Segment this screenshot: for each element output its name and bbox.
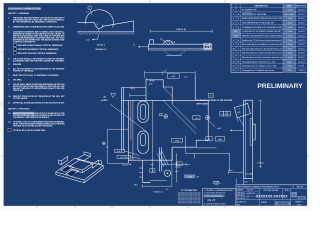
- detail view boundary arc: [86, 10, 114, 27]
- svg-text:1. Draft: 1. Draft: [286, 52, 293, 55]
- svg-text:2. XXX XXXX XXXXX XX: 2. XXX XXXX XXXXX XX: [204, 193, 226, 195]
- svg-text:10-9-21: 10-9-21: [298, 18, 305, 20]
- svg-text:⌀.18: ⌀.18: [244, 180, 248, 183]
- svg-text:SHEET 1: SHEET 1: [295, 202, 303, 204]
- svg-text:10-7-21: 10-7-21: [249, 192, 255, 194]
- svg-text:12.: 12.: [8, 113, 11, 115]
- svg-text:⌀.31 B: ⌀.31 B: [117, 150, 123, 153]
- svg-text:IN: DRAWN PER: IN: DRAWN PER: [242, 9, 257, 12]
- side view outline: [244, 100, 253, 178]
- vertical extension to title area: [175, 153, 181, 182]
- aux view left leader target: [138, 46, 140, 48]
- svg-text:4. XXX XX XXXXX XXXX: 4. XXX XX XXXXX XXXX: [204, 203, 226, 205]
- svg-text:⌀.1: ⌀.1: [86, 11, 89, 14]
- aux view center cam bump: [164, 40, 173, 44]
- long extension line to side view: [185, 136, 229, 171]
- boxed label stack left of slots: [115, 149, 125, 152]
- svg-text:Detail 1: Detail 1: [97, 44, 106, 47]
- svg-text:THE XXXXXX XXX XXXXX XX XXXX X: THE XXXXXX XXX XXXXX XX XXXX XXX: [178, 196, 201, 198]
- right side small callouts: [193, 115, 200, 119]
- svg-text:9: 9: [233, 44, 234, 46]
- svg-text:13: 13: [232, 61, 234, 63]
- svg-text:10-7-21: 10-7-21: [298, 10, 305, 12]
- svg-text:DEBURR.: DEBURR.: [13, 64, 22, 66]
- bottom dimension line: [143, 184, 172, 188]
- zone tick marks right: [307, 52, 309, 156]
- svg-text:ALIGNMENT AND THE FIXTURE GAUG: ALIGNMENT AND THE FIXTURE GAUGE PIN. FIN…: [13, 60, 65, 63]
- aux view top dimension line: [151, 30, 213, 33]
- side view bottom dimensions: [228, 170, 252, 185]
- side view right bump: [253, 124, 256, 140]
- svg-text:≈⊕: ≈⊕: [196, 176, 199, 179]
- leader to position callout: [208, 120, 215, 127]
- revision table: [231, 3, 307, 72]
- svg-text:L: L: [238, 57, 239, 59]
- svg-text:THE XXXXXX XXX XXXXX XX XXXX X: THE XXXXXX XXX XXXXX XX XXXX XXX: [178, 201, 201, 203]
- svg-text:10-9-21: 10-9-21: [298, 35, 305, 37]
- svg-text:THE XXXXXX XXX XXXXX XX XXXX X: THE XXXXXX XXX XXXXX XX XXXX XXX: [178, 203, 201, 205]
- svg-text:BEST FILE FOR CALL TO MATERIAL: BEST FILE FOR CALL TO MATERIAL THICKNESS…: [13, 74, 59, 77]
- svg-text:DESCRIPTION: DESCRIPTION: [255, 5, 269, 7]
- notes block: general notes text: [8, 8, 65, 132]
- svg-text:.3: .3: [178, 164, 180, 166]
- boxed diameter callout: [216, 137, 225, 141]
- proprietary note paragraph: [178, 189, 201, 204]
- svg-text:DIMENSIONS AND TOLERANCING PER: DIMENSIONS AND TOLERANCING PER ASME Y14.…: [13, 25, 65, 28]
- body left edge inner lines: [131, 100, 133, 160]
- svg-text:POINTS OF THE EDGE.: POINTS OF THE EDGE.: [13, 71, 34, 73]
- svg-text:8: 8: [210, 96, 211, 98]
- highlighted label 1.500: [122, 163, 128, 166]
- datum target circle left: [103, 142, 106, 145]
- slot lower outer: [138, 131, 149, 154]
- svg-text:GROUP 2: PROCESS: GROUP 2: PROCESS: [8, 109, 30, 111]
- svg-text:NO BUMPS ON EDGE OF THE FIXTUR: NO BUMPS ON EDGE OF THE FIXTURE: [197, 100, 233, 102]
- svg-text:Still note tolerance of the ba: Still note tolerance of the bar with ful…: [242, 52, 282, 55]
- side view left leader: [230, 130, 232, 132]
- svg-text:2. Draft: 2. Draft: [286, 26, 293, 29]
- aux view right end detail: [205, 44, 210, 48]
- svg-text:⌀.30: ⌀.30: [171, 75, 175, 78]
- svg-text:⌀.1: ⌀.1: [106, 145, 109, 148]
- svg-text:HIT SPEC.: HIT SPEC.: [13, 79, 23, 81]
- svg-text:INDICATES FUNCTIONALLY CRITICA: INDICATES FUNCTIONALLY CRITICAL DIMENSIO…: [18, 44, 63, 47]
- side view tilted flag: [234, 103, 250, 117]
- projection stubs on x=142.6: [139, 168, 143, 177]
- highlighted callout 1.900: [184, 174, 195, 178]
- svg-text:8:54: 8:54: [215, 184, 219, 186]
- zone tick marks left: [1, 52, 3, 156]
- svg-text:10-9-21: 10-9-21: [298, 53, 305, 55]
- svg-text:THE INFORMATION CONTAINED IN T: THE INFORMATION CONTAINED IN THIS DRAWIN…: [237, 186, 280, 189]
- main view small target circle: [164, 114, 168, 118]
- slot lower inner: [141, 134, 146, 146]
- svg-text:5: 5: [233, 27, 234, 29]
- svg-text:9-7-21: 9-7-21: [299, 66, 304, 68]
- short lines near bottom: [143, 181, 167, 183]
- svg-text:SCALE 8:1: SCALE 8:1: [95, 48, 107, 51]
- boxed label .15: [150, 169, 155, 173]
- svg-text:Changed tab D f distance to c: Changed tab D f distance to c slot: [242, 60, 276, 63]
- svg-text:1. Draft: 1. Draft: [286, 34, 293, 37]
- svg-text:Was made tolerances added etc: Was made tolerances added etc on dimensi…: [242, 43, 283, 46]
- svg-text:THE XXXXXX XXX XXXXX XX XXXX X: THE XXXXXX XXX XXXXX XX XXXX XXX: [178, 197, 201, 199]
- svg-text:7: 7: [89, 8, 90, 10]
- svg-text:THE XXXXXX XXX XXXXX XX XXXX X: THE XXXXXX XXX XXXXX XX XXXX XXX: [178, 192, 201, 194]
- svg-text:IF CONTRACTED: IF CONTRACTED: [181, 189, 197, 192]
- svg-text:10-7-21: 10-7-21: [298, 14, 305, 16]
- svg-text:4.42 [x]: 4.42 [x]: [257, 162, 264, 164]
- svg-text:⌀5: ⌀5: [208, 138, 210, 141]
- logo cell: [291, 192, 297, 197]
- svg-text:2. Draft: 2. Draft: [286, 17, 293, 20]
- svg-text:1. Draft: 1. Draft: [286, 9, 293, 12]
- svg-text:⌀.15: ⌀.15: [184, 75, 188, 78]
- svg-text:DETAIL: DETAIL: [213, 181, 221, 184]
- svg-text:1.900: 1.900: [187, 177, 192, 179]
- svg-text:2: 2: [233, 14, 234, 16]
- svg-text:APPROVED: APPROVED: [296, 4, 307, 7]
- svg-text:SCALE 2:1: SCALE 2:1: [154, 191, 163, 194]
- main view internal vertical line: [151, 100, 153, 172]
- svg-text:J: J: [238, 48, 239, 50]
- main view upper boxed label: [167, 74, 179, 79]
- svg-text:OF 1: OF 1: [297, 204, 301, 206]
- svg-text:3.05: 3.05: [149, 84, 153, 86]
- svg-text:SCALE 1:1: SCALE 1:1: [237, 201, 246, 204]
- left standards box of title block: [203, 188, 237, 206]
- svg-text:SHEET: SHEET: [261, 202, 268, 204]
- svg-text:7-16-21: 7-16-21: [298, 70, 305, 72]
- svg-text:WITH GATE: WITH GATE: [197, 103, 209, 106]
- svg-text:.62: .62: [164, 70, 167, 72]
- svg-text:APPROVAL A DETAILED ARTICLE PL: APPROVAL A DETAILED ARTICLE PLAN SHOULD …: [13, 102, 65, 105]
- svg-text:[.38]: [.38]: [175, 140, 179, 142]
- svg-text:⊕ [.3]: ⊕ [.3]: [130, 87, 135, 90]
- svg-text:8: 8: [233, 40, 234, 42]
- svg-text:Ra 25: Ra 25: [208, 198, 216, 202]
- svg-text:THE XXXXXX XXX XXXXX XX XXXX X: THE XXXXXX XXX XXXXX XX XXXX XXX: [178, 199, 201, 201]
- svg-text:⊕(x): ⊕(x): [229, 169, 233, 172]
- svg-text:Changed the Ti f fixtures to c: Changed the Ti f fixtures to c slot: [242, 65, 277, 68]
- svg-text:1. Days: 1. Days: [286, 66, 292, 68]
- svg-text:CHECKED: CHECKED: [237, 192, 246, 194]
- main view outline wide body: [121, 100, 208, 160]
- svg-text:10-9-21: 10-9-21: [298, 61, 305, 63]
- horizontal dimension line y=164.4: [162, 163, 190, 166]
- svg-text:10-9-21: 10-9-21: [298, 31, 305, 33]
- svg-text:⌀8: ⌀8: [104, 95, 106, 98]
- svg-text:Moved frames in latest slot fi: Moved frames in latest slot fixture with…: [242, 56, 282, 59]
- svg-text:⌀.4 7.2⌀: ⌀.4 7.2⌀: [120, 156, 128, 159]
- side view tall dimension line far right: [259, 100, 263, 168]
- svg-text:2.82 [71.6]: 2.82 [71.6]: [176, 29, 186, 31]
- svg-text:15: 15: [232, 70, 234, 72]
- slot upper outer: [138, 101, 149, 123]
- main view upper dimension line: [145, 71, 196, 78]
- svg-text:CONTROLS GEOMETRY:: CONTROLS GEOMETRY:: [13, 41, 36, 43]
- svg-text:10-9-21: 10-9-21: [298, 22, 305, 24]
- title block main table: [236, 185, 307, 206]
- aux view phantom bowl arc below bar: [164, 50, 185, 55]
- svg-text:Changed the Ti added clip fixt: Changed the Ti added clip fixture: [242, 69, 274, 72]
- isometric small dark slot: [62, 167, 71, 172]
- zone tick marks top: [75, 1, 225, 3]
- svg-text:1. Plus: 1. Plus: [286, 70, 292, 72]
- boxed label near right step: [172, 139, 183, 143]
- svg-text:1. Draft: 1. Draft: [286, 56, 293, 59]
- svg-text:OF THE GAUGE.: OF THE GAUGE.: [13, 97, 28, 100]
- svg-text:2.03 A18: 2.03 A18: [246, 172, 253, 175]
- svg-text:FIXTURE DETAIL: FIXTURE DETAIL: [263, 189, 278, 192]
- svg-text:13.: 13.: [8, 121, 11, 123]
- svg-text:.15: .15: [151, 171, 154, 173]
- left projection box: [107, 129, 128, 163]
- svg-text:INDICATES ASSEMBLY CRITICAL DI: INDICATES ASSEMBLY CRITICAL DIMENSION.: [18, 48, 59, 51]
- title table grid: [236, 185, 307, 206]
- svg-text:10-9-21: 10-9-21: [298, 40, 305, 42]
- svg-text:INDICATES PROCESS CONTROL DIME: INDICATES PROCESS CONTROL DIMENSION.: [18, 52, 57, 55]
- zone tick marks bottom: [37, 207, 262, 209]
- svg-text:DATE: DATE: [286, 4, 292, 7]
- svg-text:TOLERANCE OF D DIMS .50 TO THE: TOLERANCE OF D DIMS .50 TO THE DETAIL OF…: [242, 26, 283, 29]
- bent-tab diagonals: [157, 150, 169, 167]
- lower vertical dimension with arrows: [171, 147, 173, 186]
- svg-text:ADDED DATUM TARGET D AND PROFI: ADDED DATUM TARGET D AND PROFILE TOL ALL…: [242, 17, 282, 20]
- isometric view of bracket: [56, 152, 103, 183]
- svg-text:⊕.08: ⊕.08: [217, 127, 221, 130]
- svg-text:LOCATIONS TOL OF SPRING CLIP A: LOCATIONS TOL OF SPRING CLIP AND THE SET: [242, 30, 282, 33]
- svg-text:THE XXXXXX XXX XXXXX XX XXXX X: THE XXXXXX XXX XXXXX XX XXXX XXX: [178, 194, 201, 196]
- svg-text:Initial: Initial: [287, 60, 292, 63]
- lower circle feature: [164, 170, 170, 176]
- main view bend diagonals: [163, 87, 196, 134]
- small dim text above upper part: [150, 80, 151, 81]
- main view lower extension lines: [128, 147, 161, 182]
- svg-text:4: 4: [233, 22, 234, 24]
- svg-text:1. Draft: 1. Draft: [286, 43, 293, 46]
- left flange thin element: [121, 88, 146, 151]
- svg-text:1. Draft: 1. Draft: [286, 47, 293, 50]
- datum reference frame stack: [220, 111, 231, 116]
- svg-text:⌀(8): ⌀(8): [218, 138, 222, 141]
- svg-text:10-9-21: 10-9-21: [298, 48, 305, 50]
- aux view flat bar body: [149, 44, 212, 50]
- svg-text:786 750: 786 750: [296, 187, 303, 189]
- detail balloon callout: [88, 6, 92, 10]
- svg-text:14: 14: [232, 66, 234, 68]
- svg-text:REMOVE B: TITLE GEOMETRY LT S: REMOVE B: TITLE GEOMETRY LT SLOT LOCATIO…: [242, 34, 283, 37]
- svg-text:⌀.04: ⌀.04: [86, 38, 90, 41]
- svg-text:.08: .08: [195, 118, 198, 120]
- svg-text:⌀.0XXX: ⌀.0XXX: [101, 99, 108, 102]
- svg-text:10.: 10.: [8, 96, 11, 98]
- svg-text:PER PLAN.: PER PLAN.: [13, 89, 24, 92]
- detail surface hatch band: [78, 30, 135, 32]
- svg-text:1988-0829: 1988-0829: [277, 204, 289, 206]
- svg-text:SIZE: SIZE: [285, 190, 290, 192]
- svg-text:1. Draft: 1. Draft: [286, 30, 293, 33]
- svg-text:1. Draft: 1. Draft: [286, 21, 293, 24]
- svg-text:11: 11: [233, 53, 235, 55]
- svg-text:1. Draft: 1. Draft: [286, 39, 293, 42]
- svg-text:FIXTURE. ALSO NOTED ACCEPT PRO: FIXTURE. ALSO NOTED ACCEPT PROCESS.: [13, 124, 53, 127]
- detail section profile: [78, 21, 134, 31]
- svg-text:Rev: Initial: Rev: Initial: [285, 13, 294, 16]
- main view outline upper portion: [146, 76, 195, 105]
- svg-text:XXXX: XXXX: [299, 198, 305, 200]
- svg-text:Half with added datum to the b: Half with added datum to the big dimensi…: [242, 47, 282, 50]
- svg-text:XXXXXXX-XXYXXX: XXXXXXX-XXYXXX: [256, 195, 288, 199]
- svg-text:10-9-21: 10-9-21: [298, 57, 305, 59]
- svg-text:TOLERANCE. SEE MASTER SCHEDULE: TOLERANCE. SEE MASTER SCHEDULE.: [13, 116, 50, 119]
- aux view left tab: [150, 40, 154, 44]
- svg-text:HOLE DEFINITION OF THE DETAIL: HOLE DEFINITION OF THE DETAIL SET: [242, 21, 275, 24]
- slot upper inner: [141, 104, 146, 119]
- svg-text:AT THE INTERFACE AT ASSEMBLY C: AT THE INTERFACE AT ASSEMBLY CONDITION.: [13, 21, 57, 24]
- svg-text:GROUP 1: GENERAL: GROUP 1: GENERAL: [8, 12, 30, 15]
- svg-text:10-9-21: 10-9-21: [298, 44, 305, 46]
- svg-text:OPTICAL AT FLOW ALLOWED FINE.: OPTICAL AT FLOW ALLOWED FINE.: [13, 129, 46, 132]
- svg-text:1.500: 1.500: [123, 164, 128, 166]
- svg-text:PRELIMINARY: PRELIMINARY: [257, 83, 303, 90]
- svg-text:1: 1: [233, 10, 234, 12]
- svg-text:10: 10: [232, 48, 234, 50]
- svg-text:12: 12: [232, 57, 234, 59]
- svg-text:xxx: xxx: [259, 166, 262, 168]
- svg-text:Redid on the CT left 4 datum t: Redid on the CT left 4 datum to limit an…: [242, 39, 282, 42]
- svg-text:10-9-21: 10-9-21: [298, 27, 305, 29]
- svg-text:3: 3: [233, 18, 234, 20]
